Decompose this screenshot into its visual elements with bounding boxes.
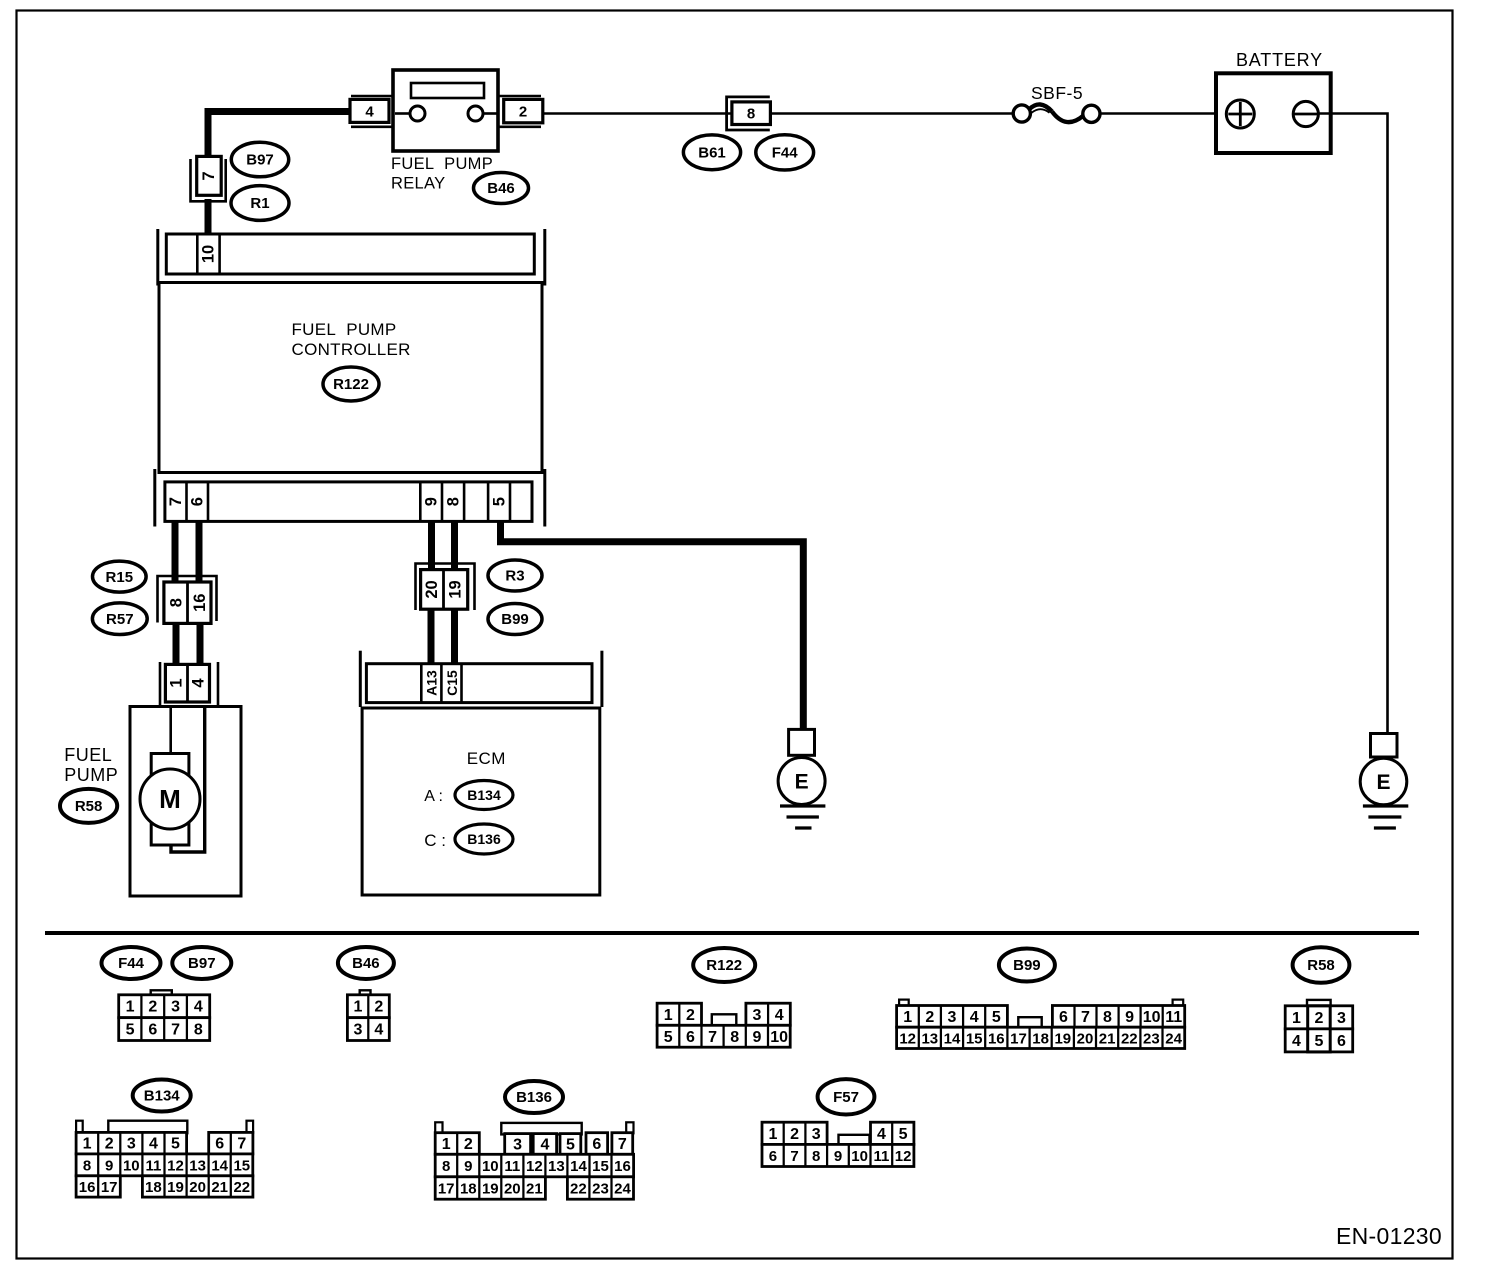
svg-text:C15: C15: [444, 670, 460, 696]
svg-text:7: 7: [171, 1022, 180, 1039]
svg-text:4: 4: [374, 1022, 383, 1039]
connector label oval R122bot: [693, 948, 755, 982]
svg-text:2: 2: [519, 104, 527, 121]
fuel pump controller top connector ticks: [158, 229, 545, 286]
svg-text:R15: R15: [106, 569, 134, 586]
svg-text:7: 7: [1081, 1009, 1090, 1026]
connector label oval R15: [93, 561, 147, 592]
relay contact pins: [395, 106, 497, 121]
connector label oval B134bot: [133, 1080, 191, 1112]
svg-text:5: 5: [664, 1029, 673, 1046]
svg-text:9: 9: [464, 1158, 472, 1175]
svg-text:24: 24: [614, 1181, 631, 1198]
wire pump pin4 to motor: [171, 707, 205, 852]
svg-text:2: 2: [374, 999, 383, 1016]
wire pump pin1 to motor: [169, 707, 172, 754]
svg-text:A13: A13: [424, 670, 440, 696]
svg-text:F44: F44: [772, 145, 799, 162]
svg-text:E: E: [795, 771, 809, 794]
svg-text:9: 9: [752, 1029, 761, 1046]
svg-text:18: 18: [1032, 1030, 1049, 1047]
svg-text:4: 4: [149, 1136, 158, 1153]
svg-text:5: 5: [490, 497, 508, 506]
svg-text:6: 6: [215, 1136, 224, 1153]
svg-text:1: 1: [664, 1007, 673, 1024]
svg-text:6: 6: [1337, 1033, 1346, 1050]
svg-text:7: 7: [237, 1136, 246, 1153]
connector label oval B97: [231, 142, 288, 177]
svg-text:A :: A :: [424, 788, 443, 805]
svg-text:21: 21: [211, 1179, 228, 1196]
svg-text:15: 15: [966, 1030, 983, 1047]
svg-text:3: 3: [812, 1126, 821, 1143]
svg-text:2: 2: [686, 1007, 695, 1024]
svg-text:2: 2: [148, 999, 157, 1016]
svg-text:3: 3: [171, 999, 180, 1016]
connector face B134 (22-pin): [76, 1121, 253, 1197]
svg-text:B61: B61: [698, 145, 726, 162]
wire connector 7 to controller pin 10 (thick): [205, 199, 212, 235]
svg-text:R58: R58: [1307, 957, 1335, 974]
svg-text:B99: B99: [501, 611, 529, 628]
svg-text:7: 7: [167, 497, 185, 506]
svg-text:20: 20: [189, 1179, 206, 1196]
connector label oval F44top: [756, 135, 814, 170]
fuel pump controller pin strip top, pin 10: [166, 234, 534, 274]
svg-text:B99: B99: [1013, 957, 1041, 974]
ECM body: [362, 708, 600, 895]
connector 20/19 (R3/B99 junction) shell: [416, 564, 475, 611]
svg-text:2: 2: [790, 1126, 799, 1143]
connector label oval R122ctl: [323, 367, 379, 401]
relay terminal 4 box: [350, 99, 389, 122]
svg-text:9: 9: [834, 1148, 842, 1165]
svg-text:22: 22: [233, 1179, 250, 1196]
svg-text:4: 4: [540, 1136, 549, 1153]
svg-text:3: 3: [353, 1022, 362, 1039]
svg-text:13: 13: [921, 1030, 938, 1047]
svg-text:3: 3: [127, 1136, 136, 1153]
svg-text:19: 19: [482, 1181, 499, 1198]
svg-text:8: 8: [730, 1029, 739, 1046]
svg-text:1: 1: [903, 1009, 912, 1026]
relay terminal 4 connector shell: [351, 96, 392, 127]
svg-text:4: 4: [365, 104, 374, 121]
wire fuse to battery: [1101, 112, 1226, 115]
svg-text:23: 23: [592, 1181, 609, 1198]
connector label oval F44bot: [102, 947, 161, 979]
svg-text:21: 21: [526, 1181, 543, 1198]
connector label oval R58bot: [1293, 947, 1350, 982]
svg-text:PUMP: PUMP: [64, 765, 118, 785]
ECM pin strip A13 C15: [366, 664, 592, 703]
svg-text:20: 20: [423, 580, 441, 598]
connector face R122 (10-pin): [657, 1003, 790, 1047]
svg-text:20: 20: [1077, 1030, 1094, 1047]
svg-text:16: 16: [79, 1179, 96, 1196]
svg-text:B97: B97: [246, 152, 274, 169]
svg-text:7: 7: [790, 1148, 798, 1165]
svg-text:3: 3: [948, 1009, 957, 1026]
svg-text:SBF-5: SBF-5: [1031, 83, 1083, 103]
svg-text:FUEL: FUEL: [64, 745, 112, 765]
svg-text:9: 9: [1125, 1009, 1134, 1026]
connector face B46 (4-pin): [347, 990, 389, 1040]
connector pin 8 box: [732, 102, 771, 125]
svg-text:F44: F44: [118, 955, 145, 972]
svg-text:21: 21: [1099, 1030, 1116, 1047]
svg-text:17: 17: [438, 1181, 455, 1198]
wire controller pin7 down (thick): [172, 521, 179, 583]
fuse SBF-5: [1013, 83, 1100, 122]
svg-text:3: 3: [513, 1136, 522, 1153]
svg-text:14: 14: [570, 1158, 587, 1175]
svg-text:7: 7: [618, 1136, 627, 1153]
wires connector 8/16 to 1/4 (thick): [176, 623, 200, 665]
svg-text:ECM: ECM: [467, 749, 506, 768]
svg-text:R122: R122: [706, 957, 742, 974]
svg-text:5: 5: [992, 1009, 1001, 1026]
figure number EN-01230: [1336, 1223, 1442, 1249]
wire relay pin2 to SBF-5 fuse: [543, 112, 1013, 115]
wire battery to ground E (right): [1318, 114, 1387, 734]
connector label oval R58pump: [60, 789, 117, 823]
connector label oval B99bot: [999, 949, 1055, 982]
connector label oval B99mid: [488, 604, 542, 635]
wires connector 20/19 to ECM (thick): [431, 609, 455, 665]
connector pin 8 (B61/F44 junction) shell: [727, 97, 770, 130]
wire controller pin6 down (thick): [196, 521, 203, 583]
svg-text:16: 16: [988, 1030, 1005, 1047]
svg-text:B134: B134: [144, 1088, 181, 1105]
svg-text:4: 4: [194, 999, 203, 1016]
svg-text:B97: B97: [188, 955, 216, 972]
fuel pump controller pin strip bottom, pins 7 6 9 8 5: [165, 482, 532, 522]
connector label oval B61: [683, 135, 740, 170]
svg-text:8: 8: [83, 1157, 91, 1174]
svg-text:1: 1: [168, 678, 186, 687]
svg-text:22: 22: [1121, 1030, 1138, 1047]
svg-text:E: E: [1376, 771, 1390, 794]
ground E (middle, controller pin5): [778, 729, 825, 828]
svg-text:4: 4: [775, 1007, 784, 1024]
connector label oval B46bot: [338, 947, 394, 979]
svg-text:8: 8: [444, 497, 462, 506]
svg-text:6: 6: [769, 1148, 777, 1165]
svg-text:2: 2: [464, 1136, 473, 1153]
connector face F57 (12-pin): [762, 1122, 914, 1166]
svg-text:1: 1: [442, 1136, 451, 1153]
connector pin 7 (B97/R1 junction) shell: [191, 159, 226, 201]
battery: [1216, 50, 1331, 153]
wire controller pin8 down (thick): [451, 521, 458, 571]
svg-text:6: 6: [592, 1136, 601, 1153]
svg-text:10: 10: [770, 1029, 788, 1046]
wire relay pin4 to connector 7 (thick): [208, 112, 351, 158]
connector label oval B136bot: [505, 1081, 563, 1113]
svg-text:18: 18: [460, 1181, 477, 1198]
svg-text:4: 4: [970, 1009, 979, 1026]
svg-text:4: 4: [1292, 1033, 1301, 1050]
svg-text:FUEL PUMP: FUEL PUMP: [391, 155, 493, 173]
connector label oval R57: [92, 603, 147, 635]
svg-text:F57: F57: [833, 1089, 859, 1106]
svg-text:6: 6: [148, 1022, 157, 1039]
fuel pump controller bottom connector ticks: [155, 469, 545, 527]
svg-text:2: 2: [105, 1136, 114, 1153]
svg-text:R1: R1: [250, 195, 269, 212]
svg-text:R122: R122: [333, 376, 369, 393]
svg-text:10: 10: [482, 1158, 499, 1175]
svg-text:2: 2: [1315, 1010, 1324, 1027]
connector label oval B136ecm: [455, 824, 513, 854]
svg-text:8: 8: [442, 1158, 450, 1175]
relay terminal 2 box: [504, 99, 543, 122]
connector label oval B97bot: [172, 947, 231, 979]
svg-text:R3: R3: [505, 568, 524, 585]
svg-text:7: 7: [200, 171, 218, 180]
svg-text:19: 19: [447, 580, 465, 598]
svg-text:B134: B134: [467, 787, 501, 803]
svg-text:22: 22: [570, 1181, 587, 1198]
svg-text:3: 3: [1337, 1010, 1346, 1027]
svg-text:10: 10: [851, 1148, 868, 1165]
svg-text:19: 19: [167, 1179, 184, 1196]
svg-text:FUEL PUMP: FUEL PUMP: [292, 320, 397, 339]
svg-text:23: 23: [1143, 1030, 1160, 1047]
connector 8/16 (R15/R57 junction) shell: [158, 576, 217, 623]
connector label oval B134ecm: [455, 781, 513, 810]
svg-text:12: 12: [526, 1158, 543, 1175]
svg-text:16: 16: [614, 1158, 631, 1175]
label FUEL PUMP: [64, 745, 118, 785]
svg-text:5: 5: [171, 1136, 180, 1153]
pump motor M: [140, 754, 200, 846]
svg-text:14: 14: [211, 1157, 228, 1174]
svg-text:8: 8: [747, 106, 755, 123]
svg-text:19: 19: [1054, 1030, 1071, 1047]
wire controller pin9 down (thick): [428, 521, 435, 571]
connector 20/19 box: [421, 570, 468, 610]
svg-text:M: M: [159, 784, 181, 814]
connector face B136 (24-pin): [435, 1122, 633, 1199]
svg-text:6: 6: [1059, 1009, 1068, 1026]
fuel pump controller R122 body: [159, 283, 542, 473]
svg-text:R57: R57: [106, 611, 134, 628]
svg-text:12: 12: [899, 1030, 916, 1047]
svg-text:17: 17: [101, 1179, 118, 1196]
svg-text:B136: B136: [467, 831, 501, 847]
svg-text:4: 4: [877, 1126, 886, 1143]
svg-text:13: 13: [189, 1157, 206, 1174]
svg-text:2: 2: [925, 1009, 934, 1026]
label FUEL PUMP RELAY: [391, 155, 493, 193]
svg-text:6: 6: [686, 1029, 695, 1046]
svg-text:10: 10: [1143, 1009, 1161, 1026]
svg-text:EN-01230: EN-01230: [1336, 1223, 1442, 1249]
svg-text:7: 7: [708, 1029, 717, 1046]
svg-text:CONTROLLER: CONTROLLER: [292, 340, 411, 359]
svg-text:11: 11: [1165, 1009, 1182, 1026]
svg-text:12: 12: [895, 1148, 912, 1165]
connector label oval R3: [488, 560, 542, 591]
svg-text:B46: B46: [352, 955, 380, 972]
separator line: [45, 931, 1419, 935]
svg-text:15: 15: [233, 1157, 250, 1174]
connector 1/4 shell: [160, 662, 218, 706]
svg-text:14: 14: [944, 1030, 961, 1047]
svg-text:BATTERY: BATTERY: [1236, 50, 1323, 70]
svg-text:8: 8: [1103, 1009, 1112, 1026]
svg-text:1: 1: [768, 1126, 777, 1143]
svg-text:B136: B136: [516, 1089, 552, 1106]
svg-text:6: 6: [189, 497, 207, 506]
svg-text:17: 17: [1010, 1030, 1027, 1047]
svg-text:8: 8: [168, 598, 186, 607]
svg-text:15: 15: [592, 1158, 609, 1175]
connector face B99 (24-pin): [897, 1000, 1185, 1049]
ECM connector ticks: [360, 651, 602, 707]
svg-text:18: 18: [145, 1179, 162, 1196]
svg-text:24: 24: [1165, 1030, 1182, 1047]
svg-text:8: 8: [812, 1148, 820, 1165]
svg-text:3: 3: [753, 1007, 762, 1024]
connector face F44/B97 (8-pin): [119, 990, 210, 1040]
svg-text:9: 9: [105, 1157, 113, 1174]
fuel pump R58 body: [130, 707, 241, 897]
connector 1/4 box: [165, 664, 209, 702]
svg-text:5: 5: [566, 1136, 575, 1153]
connector face R58 (6-pin): [1285, 1000, 1353, 1052]
ground E (right, battery): [1360, 734, 1408, 829]
svg-text:5: 5: [1315, 1033, 1324, 1050]
svg-text:1: 1: [353, 999, 362, 1016]
svg-text:B46: B46: [487, 180, 515, 197]
svg-text:1: 1: [1292, 1010, 1301, 1027]
svg-text:4: 4: [190, 678, 208, 688]
svg-text:11: 11: [504, 1158, 520, 1175]
svg-text:C :: C :: [424, 831, 446, 850]
svg-text:1: 1: [126, 999, 135, 1016]
svg-text:12: 12: [167, 1157, 184, 1174]
svg-text:20: 20: [504, 1181, 521, 1198]
connector label oval B46: [474, 173, 529, 204]
svg-text:16: 16: [191, 594, 209, 612]
svg-text:13: 13: [548, 1158, 565, 1175]
connector 8/16 box: [164, 582, 211, 623]
fuel pump relay B46 body: [393, 70, 498, 151]
svg-text:11: 11: [145, 1157, 161, 1174]
svg-text:8: 8: [194, 1022, 203, 1039]
svg-text:5: 5: [899, 1126, 908, 1143]
svg-text:10: 10: [200, 245, 218, 263]
svg-text:11: 11: [873, 1148, 889, 1165]
connector label oval R1: [231, 186, 289, 221]
wire controller pin5 to ground E (thick): [501, 521, 804, 730]
relay terminal 2 connector shell: [499, 96, 541, 127]
svg-text:9: 9: [423, 497, 441, 506]
svg-text:10: 10: [123, 1157, 140, 1174]
svg-text:1: 1: [83, 1136, 92, 1153]
connector label oval F57bot: [818, 1079, 875, 1114]
connector pin 7 box: [197, 156, 222, 195]
svg-text:R58: R58: [75, 798, 103, 815]
svg-text:RELAY: RELAY: [391, 175, 445, 193]
svg-text:5: 5: [126, 1022, 135, 1039]
